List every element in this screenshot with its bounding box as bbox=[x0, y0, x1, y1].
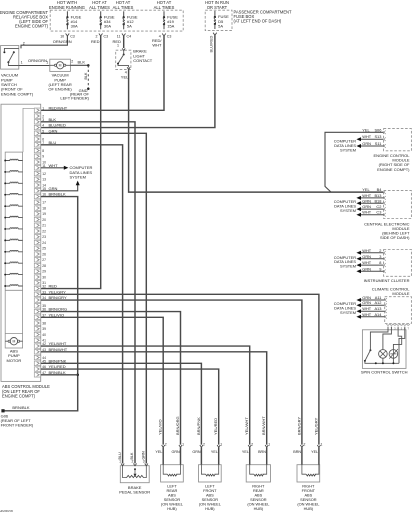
wire pin 33 to right front right ABS sensor bbox=[41, 294, 319, 444]
svg-text:1: 1 bbox=[182, 442, 184, 446]
right front ABS sensor bbox=[297, 465, 320, 511]
spin control switch ground rail bbox=[375, 362, 399, 364]
wire pin 16 BRN/BLK to ground G06 bbox=[4, 197, 78, 411]
connector below passenger fuse box bbox=[213, 33, 217, 36]
fuse #19 15A bbox=[163, 11, 178, 29]
pin 36 label BRN/ORG bbox=[49, 307, 68, 312]
svg-text:FRONT FENDER): FRONT FENDER) bbox=[1, 423, 34, 428]
svg-text:A13: A13 bbox=[374, 306, 381, 311]
fuse #12 5A bbox=[123, 11, 138, 29]
svg-text:S13: S13 bbox=[374, 134, 381, 139]
svg-text:ALL TIMES: ALL TIMES bbox=[113, 5, 134, 10]
pin 34 label BRN/GRY bbox=[49, 295, 67, 300]
svg-text:BRN/ORG: BRN/ORG bbox=[175, 416, 180, 435]
computer data lines system label (cluster) bbox=[334, 255, 357, 269]
svg-text:27: 27 bbox=[42, 258, 46, 262]
svg-text:WHT: WHT bbox=[362, 260, 371, 265]
svg-text:8: 8 bbox=[42, 149, 44, 153]
svg-text:2: 2 bbox=[379, 248, 381, 253]
svg-text:WHT: WHT bbox=[362, 193, 371, 198]
engine control module pin S13 (WHT) bbox=[356, 134, 385, 141]
pin 11 label WHT bbox=[49, 163, 59, 168]
central electronic module bbox=[384, 191, 412, 219]
svg-text:GRN: GRN bbox=[362, 141, 371, 146]
svg-text:GRN: GRN bbox=[192, 450, 201, 454]
svg-text:GRN: GRN bbox=[362, 266, 371, 271]
climate control module label bbox=[372, 286, 410, 296]
svg-text:YEL/WHT: YEL/WHT bbox=[49, 341, 67, 346]
svg-text:29: 29 bbox=[42, 270, 46, 274]
connector C3 pin 4 bbox=[159, 33, 172, 38]
svg-text:ENGINE RUNNING: ENGINE RUNNING bbox=[49, 5, 85, 10]
ground (rear of left fender) bbox=[60, 64, 89, 100]
svg-text:YEL/VIO: YEL/VIO bbox=[49, 312, 65, 317]
svg-text:(AT LEFT END OF DASH): (AT LEFT END OF DASH) bbox=[234, 19, 282, 24]
svg-text:20: 20 bbox=[42, 218, 46, 222]
svg-text:4WB06: 4WB06 bbox=[0, 509, 14, 512]
ABS solenoid valve coil 10 bbox=[4, 262, 22, 264]
svg-text:BRN/BLK: BRN/BLK bbox=[49, 192, 66, 197]
connector C4 pin 11 bbox=[117, 33, 131, 38]
ground G06 (rear of left front fender) bbox=[1, 405, 34, 428]
svg-text:17: 17 bbox=[42, 201, 46, 205]
left front sensor harness wire labels bbox=[196, 417, 218, 435]
fuse #14 30A bbox=[66, 11, 81, 29]
ABS solenoid valve coil 11 bbox=[4, 273, 22, 275]
right front sensor harness wire labels bbox=[296, 417, 318, 435]
svg-text:GRN: GRN bbox=[362, 198, 371, 203]
ABS solenoid valve coil 5 bbox=[4, 205, 22, 207]
pin 5 label GRN bbox=[49, 128, 58, 133]
svg-text:YEL/GRY: YEL/GRY bbox=[313, 417, 318, 435]
climate control module pin A14 (WHT) bbox=[356, 312, 387, 319]
svg-text:S06: S06 bbox=[374, 127, 381, 132]
wire ORN/GRN switch to vacuum pump bbox=[19, 58, 50, 65]
svg-text:5A: 5A bbox=[127, 24, 132, 29]
engine control module bbox=[384, 129, 412, 151]
svg-text:YEL: YEL bbox=[242, 450, 249, 454]
svg-text:GRN: GRN bbox=[49, 128, 58, 133]
svg-text:ENGINE COMPT): ENGINE COMPT) bbox=[15, 24, 49, 29]
right rear ABS sensor bbox=[246, 465, 270, 511]
svg-text:GRN: GRN bbox=[142, 451, 146, 460]
wire pin 45 to left front left ABS sensor bbox=[41, 363, 202, 444]
svg-text:ENGINE COMPT): ENGINE COMPT) bbox=[377, 167, 410, 172]
svg-text:ENGINE COMPT): ENGINE COMPT) bbox=[1, 91, 34, 96]
engine compartment relay/fuse box bbox=[50, 10, 183, 31]
svg-text:1: 1 bbox=[42, 106, 44, 110]
svg-text:SYSTEM: SYSTEM bbox=[70, 174, 86, 179]
svg-text:M: M bbox=[12, 340, 15, 344]
svg-text:1: 1 bbox=[220, 442, 222, 446]
svg-text:GRN: GRN bbox=[171, 450, 180, 454]
svg-text:YEL: YEL bbox=[362, 187, 370, 192]
wire pin 5 GRN to brake pedal sensor pin 3 bbox=[41, 133, 147, 463]
svg-text:RED/WHT: RED/WHT bbox=[49, 105, 68, 110]
svg-text:ORN/GRN: ORN/GRN bbox=[28, 58, 47, 63]
svg-text:23: 23 bbox=[42, 235, 46, 239]
brake pedal sensor bbox=[119, 466, 150, 495]
svg-text:RED: RED bbox=[49, 284, 58, 289]
svg-text:WHT: WHT bbox=[362, 312, 371, 317]
svg-text:PEDAL SENSOR: PEDAL SENSOR bbox=[119, 490, 150, 495]
wire pin 47 BRN/BLK to ground junction bbox=[41, 374, 78, 376]
svg-text:9: 9 bbox=[379, 266, 381, 271]
instrument cluster pin 8 (WHT) bbox=[356, 260, 385, 267]
svg-text:C3: C3 bbox=[70, 34, 75, 38]
svg-text:BRN: BRN bbox=[293, 450, 301, 454]
brake pedal sensor pins bbox=[118, 451, 148, 466]
svg-text:YEL/VIO: YEL/VIO bbox=[158, 419, 163, 435]
wire RED fuse #34 to pin 32 bbox=[41, 36, 101, 289]
brake light contact bbox=[116, 48, 153, 74]
svg-text:BRN/GRY: BRN/GRY bbox=[49, 295, 67, 300]
svg-text:19: 19 bbox=[42, 212, 46, 216]
svg-text:YEL/WHT: YEL/WHT bbox=[244, 417, 249, 435]
svg-text:HUB): HUB) bbox=[167, 506, 177, 511]
svg-text:28: 28 bbox=[42, 264, 46, 268]
wire pin 34 to right front left ABS sensor bbox=[41, 300, 302, 445]
wire pin 7 BLU to brake pedal sensor pin 1 bbox=[41, 145, 123, 464]
passenger compartment fuse box bbox=[205, 9, 292, 30]
svg-text:32: 32 bbox=[42, 285, 46, 289]
svg-text:4: 4 bbox=[42, 124, 44, 128]
svg-text:SIDE OF DASH): SIDE OF DASH) bbox=[380, 235, 410, 240]
svg-text:9: 9 bbox=[42, 155, 44, 159]
engine compartment relay/fuse box label bbox=[0, 10, 49, 29]
pin 42 label YEL/WHT bbox=[49, 341, 67, 346]
instrument cluster label bbox=[364, 278, 410, 283]
computer data lines system label (climate) bbox=[334, 301, 357, 315]
left rear sensor inline connectors bbox=[155, 442, 184, 464]
ABS solenoid valve coil 2 bbox=[4, 171, 22, 173]
climate control module pin A11 (GRN) bbox=[356, 295, 387, 302]
svg-text:HUB): HUB) bbox=[254, 506, 264, 511]
ABS pump motor bbox=[5, 338, 22, 363]
svg-text:C3: C3 bbox=[167, 34, 172, 38]
svg-text:ALL TIMES: ALL TIMES bbox=[154, 5, 175, 10]
wire YEL branch to ECM S06 bbox=[325, 132, 384, 192]
svg-text:5A: 5A bbox=[218, 23, 223, 28]
svg-text:YEL: YEL bbox=[155, 450, 162, 454]
ABS module 47-pin connector bbox=[34, 106, 46, 377]
central electronic module pin B18 (GRN) bbox=[356, 198, 385, 205]
pin 15 label GRN bbox=[49, 186, 58, 191]
ABS solenoid valve coil 9 bbox=[4, 250, 22, 252]
engine control module pin S11 (GRN) bbox=[356, 141, 385, 148]
svg-text:BRN/GRY: BRN/GRY bbox=[296, 417, 301, 435]
diagram corner mark bbox=[0, 509, 14, 512]
ABS control module label bbox=[2, 384, 50, 398]
svg-text:1: 1 bbox=[321, 442, 323, 446]
hot feed labels bbox=[49, 0, 229, 10]
svg-text:B13: B13 bbox=[374, 193, 381, 198]
wire pin 37 to left rear left ABS sensor bbox=[41, 317, 164, 444]
svg-text:HUB): HUB) bbox=[205, 506, 215, 511]
svg-text:WHT: WHT bbox=[362, 210, 371, 215]
ABS solenoid valve coil 1 bbox=[4, 159, 22, 161]
svg-text:2: 2 bbox=[304, 442, 306, 446]
svg-text:25: 25 bbox=[42, 247, 46, 251]
central electronic module pin C2 (GRN) bbox=[356, 204, 385, 211]
svg-text:WHT: WHT bbox=[152, 43, 162, 48]
svg-text:22: 22 bbox=[42, 229, 46, 233]
svg-text:1: 1 bbox=[21, 61, 23, 65]
svg-text:BRN/BLK: BRN/BLK bbox=[49, 370, 66, 375]
svg-text:HUB): HUB) bbox=[304, 506, 314, 511]
svg-text:2: 2 bbox=[96, 34, 98, 38]
pin 3 label BLK bbox=[49, 117, 57, 122]
wire RED/WHT fuse #19 to pin 1 bbox=[41, 36, 164, 110]
instrument cluster bbox=[384, 250, 412, 277]
wire BLU/RED passenger fuse to pin 4 bbox=[41, 35, 215, 127]
pin 43 label BRN/WHT bbox=[49, 347, 68, 352]
pin 46 label YEL/RED bbox=[49, 364, 66, 369]
svg-text:WHT: WHT bbox=[362, 248, 371, 253]
right rear sensor inline connectors bbox=[242, 442, 270, 464]
svg-text:BLK: BLK bbox=[84, 72, 88, 80]
svg-text:10: 10 bbox=[60, 34, 64, 38]
svg-text:39: 39 bbox=[42, 327, 46, 331]
svg-text:MOTOR: MOTOR bbox=[6, 358, 21, 363]
central electronic module pin B4 (YEL) bbox=[362, 187, 386, 194]
svg-text:GRN: GRN bbox=[362, 300, 371, 305]
left rear sensor harness wire labels bbox=[158, 416, 180, 435]
svg-text:18: 18 bbox=[42, 206, 46, 210]
svg-text:BRN: BRN bbox=[258, 450, 266, 454]
left rear ABS sensor bbox=[161, 465, 184, 511]
svg-text:SYSTEM: SYSTEM bbox=[340, 310, 356, 315]
svg-text:C2: C2 bbox=[376, 204, 381, 209]
ABS solenoid valve coil 12 bbox=[4, 285, 22, 287]
svg-text:40: 40 bbox=[42, 333, 46, 337]
connector C3 pin 2 bbox=[96, 33, 109, 38]
climate control module pin A13 (WHT) bbox=[356, 306, 387, 313]
wire RED fuse #12 to brake light contact bbox=[113, 36, 124, 48]
right front sensor inline connectors bbox=[293, 442, 322, 464]
svg-text:21: 21 bbox=[42, 224, 46, 228]
svg-text:2: 2 bbox=[23, 41, 25, 45]
spin control indicator lamp 1 bbox=[379, 350, 388, 364]
ABS solenoid valve coil 4 bbox=[4, 193, 22, 195]
svg-text:C3: C3 bbox=[104, 34, 109, 38]
instrument cluster pin 9 (GRN) bbox=[356, 266, 385, 273]
svg-text:ORN/GRN: ORN/GRN bbox=[53, 39, 72, 44]
left front ABS sensor bbox=[199, 465, 222, 511]
connector C3 pin 10 bbox=[60, 33, 75, 38]
svg-text:OF ENGINE): OF ENGINE) bbox=[48, 87, 72, 92]
pin 47 label BRN/BLK bbox=[49, 370, 66, 375]
spin control switch contact bbox=[364, 349, 376, 363]
vacuum pump bbox=[48, 59, 72, 91]
svg-text:YEL: YEL bbox=[121, 75, 129, 80]
svg-text:11: 11 bbox=[117, 34, 121, 38]
wire ORN/GRN fuse #14 to vacuum pump switch bbox=[21, 36, 72, 48]
vacuum pump switch bbox=[1, 46, 19, 70]
spin control switch wiring from climate module bbox=[370, 327, 404, 364]
svg-text:30A: 30A bbox=[71, 24, 78, 29]
svg-text:CONTACT: CONTACT bbox=[133, 58, 153, 63]
svg-text:B4: B4 bbox=[377, 187, 383, 192]
svg-text:OR START: OR START bbox=[207, 5, 228, 10]
svg-text:LEFT FENDER): LEFT FENDER) bbox=[60, 96, 89, 101]
wire BLK vacuum pump to ground bbox=[70, 59, 88, 65]
svg-text:BLU/RED: BLU/RED bbox=[49, 123, 66, 128]
svg-text:2: 2 bbox=[165, 442, 167, 446]
svg-text:1: 1 bbox=[46, 61, 48, 65]
wire pin 46 to left front right ABS sensor bbox=[41, 369, 219, 445]
svg-text:C4: C4 bbox=[127, 34, 132, 38]
svg-text:YEL: YEL bbox=[211, 450, 218, 454]
svg-text:2: 2 bbox=[71, 60, 73, 64]
svg-text:YEL/GRY: YEL/GRY bbox=[49, 289, 67, 294]
svg-text:YEL/RED: YEL/RED bbox=[49, 364, 66, 369]
engine control module label bbox=[373, 153, 410, 172]
ABS solenoid valve coil 3 bbox=[4, 182, 22, 184]
climate control module label bbox=[0, 0, 1, 1]
svg-text:24: 24 bbox=[42, 241, 46, 245]
fuse #34 30A bbox=[100, 11, 115, 29]
fuse D5 5A bbox=[214, 11, 229, 29]
svg-text:13: 13 bbox=[42, 178, 46, 182]
pin 4 label BLU/RED bbox=[49, 123, 66, 128]
svg-text:11: 11 bbox=[42, 164, 46, 168]
ABS solenoid valve coil 6 bbox=[4, 216, 22, 218]
svg-text:GRN: GRN bbox=[362, 254, 371, 259]
ABS solenoid valve coil 7 bbox=[4, 228, 22, 230]
svg-text:1: 1 bbox=[268, 442, 270, 446]
svg-text:GRN: GRN bbox=[49, 186, 58, 191]
computer data lines system label (ECM) bbox=[334, 139, 357, 153]
svg-text:15A: 15A bbox=[167, 24, 174, 29]
svg-text:30A: 30A bbox=[104, 24, 111, 29]
instrument cluster pin 3 (GRN) bbox=[356, 254, 385, 261]
pin 7 label BLU bbox=[49, 140, 57, 145]
ABS module inner solenoid/pump box bbox=[5, 152, 22, 348]
climate control module bbox=[385, 297, 412, 324]
svg-text:BRN/WHT: BRN/WHT bbox=[261, 416, 266, 435]
pin 37 label YEL/VIO bbox=[49, 312, 65, 317]
svg-text:BLU: BLU bbox=[118, 452, 122, 460]
wire pin 36 to left rear right ABS sensor bbox=[41, 312, 181, 445]
wire pin 42 to right rear left ABS sensor bbox=[41, 346, 250, 445]
svg-text:BRN/PNK: BRN/PNK bbox=[49, 358, 67, 363]
svg-text:A14: A14 bbox=[374, 312, 382, 317]
svg-text:BRN/WHT: BRN/WHT bbox=[49, 347, 68, 352]
climate control module bottom connector pins bbox=[386, 324, 409, 330]
svg-text:YEL: YEL bbox=[362, 127, 370, 132]
svg-text:ENGINE COMPT): ENGINE COMPT) bbox=[2, 394, 36, 399]
wire pin 3 BLK to brake pedal sensor pin 2 bbox=[41, 122, 135, 464]
pin 32 label RED bbox=[49, 284, 58, 289]
svg-text:WHT: WHT bbox=[362, 306, 371, 311]
svg-text:BLU: BLU bbox=[49, 140, 57, 145]
wire YEL brake light contact to CEM B4 bbox=[121, 69, 384, 192]
svg-text:SYSTEM: SYSTEM bbox=[340, 264, 356, 269]
svg-text:YEL/RED: YEL/RED bbox=[213, 418, 218, 435]
engine control module pin S06 (YEL) bbox=[362, 127, 386, 134]
pin 33 label YEL/GRY bbox=[49, 289, 67, 294]
svg-text:C3: C3 bbox=[376, 210, 381, 215]
pin 1 label RED/WHT bbox=[49, 105, 68, 110]
svg-text:BLK: BLK bbox=[49, 117, 57, 122]
ABS control module box bbox=[1, 104, 41, 381]
svg-text:15: 15 bbox=[42, 187, 46, 191]
svg-text:30: 30 bbox=[42, 275, 46, 279]
svg-text:3: 3 bbox=[379, 254, 381, 259]
svg-text:RED: RED bbox=[91, 39, 100, 44]
svg-text:BLK: BLK bbox=[130, 452, 134, 460]
svg-text:8: 8 bbox=[379, 260, 381, 265]
instrument cluster pin 2 (WHT) bbox=[356, 248, 385, 255]
brake light contact pin 1 bbox=[117, 44, 119, 48]
central electronic module pin B13 (WHT) bbox=[356, 193, 385, 200]
central electronic module pin C3 (WHT) bbox=[356, 210, 385, 217]
svg-text:ALL TIMES: ALL TIMES bbox=[89, 5, 110, 10]
svg-text:WHT: WHT bbox=[362, 134, 371, 139]
computer data lines system label (CEM) bbox=[334, 199, 357, 213]
svg-text:12: 12 bbox=[42, 172, 46, 176]
svg-text:BLU/RED: BLU/RED bbox=[209, 35, 214, 52]
svg-text:SYSTEM: SYSTEM bbox=[340, 208, 356, 213]
wire pin 11 WHT to computer data lines bbox=[41, 166, 69, 170]
computer data lines system label (left) bbox=[70, 165, 93, 179]
svg-text:YEL: YEL bbox=[311, 450, 318, 454]
svg-text:2: 2 bbox=[251, 442, 253, 446]
central electronic module label bbox=[364, 221, 410, 240]
svg-text:38: 38 bbox=[42, 321, 46, 325]
svg-text:BRN/ORG: BRN/ORG bbox=[49, 307, 68, 312]
svg-text:WHT: WHT bbox=[49, 163, 59, 168]
wire pin 15 GRN to computer data lines (arrow up) bbox=[41, 181, 80, 191]
climate control module pin A12 (GRN) bbox=[356, 300, 387, 307]
svg-text:M: M bbox=[59, 64, 62, 68]
vacuum pump switch label bbox=[1, 73, 34, 97]
junction pin 47 / pin 16 ground wire bbox=[76, 374, 79, 377]
svg-text:26: 26 bbox=[42, 252, 46, 256]
spin control switch box bbox=[361, 330, 408, 375]
right rear sensor harness wire labels bbox=[244, 416, 266, 435]
svg-text:S11: S11 bbox=[375, 141, 382, 146]
svg-text:GRN: GRN bbox=[362, 204, 371, 209]
spin control illumination lamp 2 bbox=[389, 349, 398, 363]
svg-text:A12: A12 bbox=[374, 300, 381, 305]
svg-text:2: 2 bbox=[203, 442, 205, 446]
pin 16 label BRN/BLK bbox=[49, 192, 66, 197]
svg-text:SYSTEM: SYSTEM bbox=[340, 147, 356, 152]
ABS solenoid valve coil 8 bbox=[4, 239, 22, 241]
svg-text:BRN/PNK: BRN/PNK bbox=[196, 417, 201, 435]
wire pin 43 to right rear right ABS sensor bbox=[41, 352, 267, 445]
svg-text:BRN/BLK: BRN/BLK bbox=[12, 405, 29, 410]
svg-text:MODULE: MODULE bbox=[392, 291, 409, 296]
left front sensor inline connectors bbox=[192, 442, 222, 464]
svg-text:SPIN CONTROL SWITCH: SPIN CONTROL SWITCH bbox=[361, 369, 408, 374]
svg-text:B18: B18 bbox=[374, 198, 381, 203]
svg-text:BLK: BLK bbox=[78, 59, 86, 64]
svg-text:1: 1 bbox=[117, 44, 119, 48]
pin 45 label BRN/PNK bbox=[49, 358, 67, 363]
svg-text:INSTRUMENT CLUSTER: INSTRUMENT CLUSTER bbox=[364, 278, 410, 283]
